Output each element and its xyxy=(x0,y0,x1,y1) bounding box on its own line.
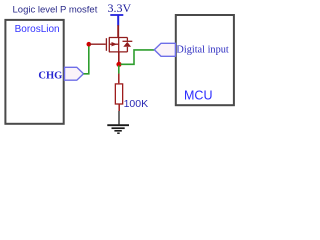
junction gate node xyxy=(87,42,92,47)
wire resistor to ground xyxy=(118,111,120,124)
port CHG pentagon xyxy=(65,67,84,80)
svg-text:Logic level P mosfet: Logic level P mosfet xyxy=(13,5,98,16)
svg-text:100K: 100K xyxy=(124,98,149,110)
top horizontal xyxy=(109,37,128,39)
junction drain node xyxy=(116,62,121,67)
wire drain to Digital input port xyxy=(121,50,155,64)
port Digital input pentagon xyxy=(154,43,175,56)
resistor value label 100K xyxy=(124,98,149,110)
port CHG label xyxy=(38,70,62,81)
wire CHG to gate junction xyxy=(84,44,89,74)
port Digital input label xyxy=(176,44,228,55)
drain lead xyxy=(118,52,120,62)
body diode top lead xyxy=(126,38,128,41)
arrow xyxy=(112,42,118,46)
ground xyxy=(107,125,129,133)
text BorosLion xyxy=(15,24,60,35)
right vertical xyxy=(118,38,120,52)
svg-text:BorosLion: BorosLion xyxy=(15,24,60,35)
body diode bottom lead xyxy=(126,47,128,52)
wire drain to resistor xyxy=(118,66,120,74)
svg-text:3.3V: 3.3V xyxy=(108,1,132,15)
bottom horizontal xyxy=(109,51,128,53)
gate bar xyxy=(105,38,107,51)
source lead from power xyxy=(117,25,119,37)
transistor Q p-mosfet xyxy=(106,25,132,62)
body diode triangle xyxy=(123,42,131,47)
svg-text:CHG: CHG xyxy=(38,70,62,81)
resistor bottom pin xyxy=(118,104,120,111)
sheet symbol BorosLion box xyxy=(5,20,63,124)
channel bar xyxy=(108,38,110,52)
MCU box xyxy=(176,15,234,105)
power port 3.3V xyxy=(108,1,132,26)
middle lead xyxy=(110,43,119,45)
resistor body 100K xyxy=(115,84,122,104)
resistor top pin xyxy=(118,74,120,84)
wire gate pin xyxy=(89,43,106,45)
body diode cathode bar xyxy=(123,40,133,42)
svg-text:Digital input: Digital input xyxy=(176,44,228,55)
text MCU xyxy=(184,89,212,103)
title text "Logic level P mosfet" xyxy=(13,5,98,16)
svg-text:MCU: MCU xyxy=(184,89,212,103)
